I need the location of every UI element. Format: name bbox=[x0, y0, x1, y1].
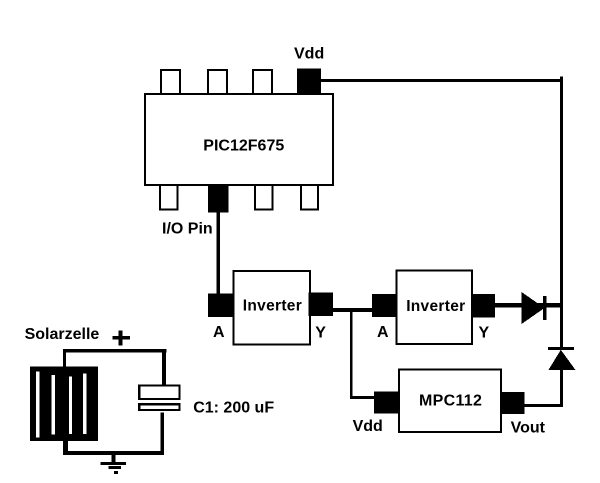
svg-text:Inverter: Inverter bbox=[406, 298, 465, 315]
svg-text:Vdd: Vdd bbox=[294, 45, 324, 62]
svg-text:Inverter: Inverter bbox=[243, 298, 302, 315]
svg-text:Vout: Vout bbox=[511, 420, 546, 437]
svg-text:MPC112: MPC112 bbox=[419, 393, 482, 410]
svg-text:C1: 200 uF: C1: 200 uF bbox=[193, 400, 274, 417]
svg-text:Y: Y bbox=[479, 325, 490, 342]
svg-text:Solarzelle: Solarzelle bbox=[25, 326, 100, 343]
svg-text:A: A bbox=[213, 324, 225, 341]
svg-text:PIC12F675: PIC12F675 bbox=[203, 138, 284, 155]
svg-text:I/O Pin: I/O Pin bbox=[162, 221, 213, 238]
svg-text:Y: Y bbox=[315, 325, 326, 342]
svg-text:A: A bbox=[377, 324, 389, 341]
svg-text:Vdd: Vdd bbox=[353, 418, 383, 435]
